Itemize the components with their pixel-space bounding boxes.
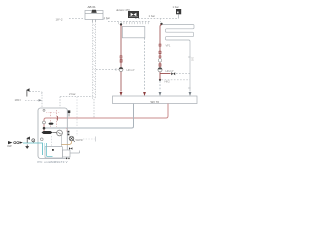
svg-text:HK2-P: HK2-P	[166, 69, 174, 73]
svg-text:HK2: HK2	[165, 79, 171, 83]
svg-text:KW: KW	[8, 145, 13, 148]
svg-text:HK1-P: HK1-P	[127, 68, 135, 72]
svg-text:160: 160	[191, 57, 194, 62]
svg-text:180 l: 180 l	[15, 98, 22, 102]
svg-text:2 bar: 2 bar	[69, 92, 76, 96]
svg-text:PN: uniHMM9GT0 V: PN: uniHMM9GT0 V	[38, 160, 68, 164]
svg-text:1 bar: 1 bar	[149, 14, 156, 18]
svg-text:18°-2: 18°-2	[56, 18, 63, 22]
svg-text:WV 70: WV 70	[151, 100, 160, 104]
svg-text:VF1: VF1	[166, 44, 171, 48]
svg-text:AB 01: AB 01	[88, 5, 97, 9]
svg-text:WW3l: WW3l	[76, 138, 84, 142]
svg-text:1 bar: 1 bar	[104, 16, 111, 20]
svg-text:1 bar: 1 bar	[173, 5, 179, 9]
